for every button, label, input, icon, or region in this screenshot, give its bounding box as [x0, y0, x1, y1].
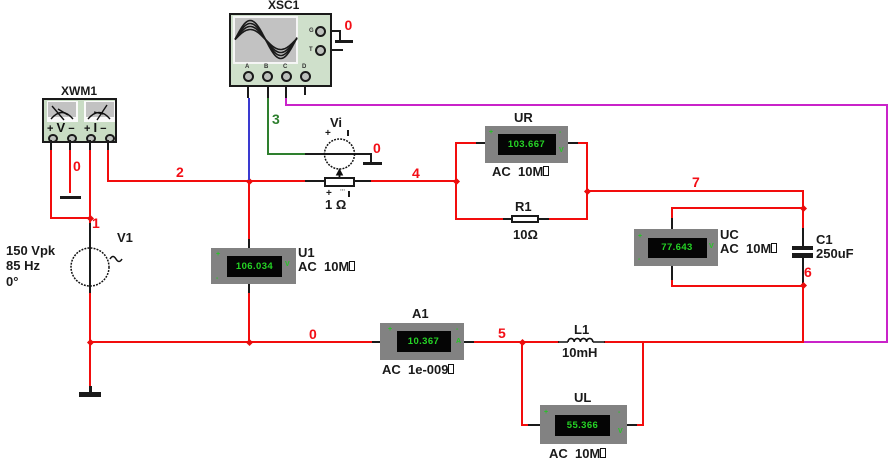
wire: bottom bus left segment — [89, 341, 373, 343]
wire: node 2 horizontal to junction — [107, 180, 250, 182]
wire: UL right horizontal red — [637, 424, 644, 426]
junction dot node 4 — [452, 177, 459, 184]
wire: UR loop left vertical — [455, 142, 457, 220]
wire: scope G pin to ground — [324, 30, 341, 32]
label XWM1 — [61, 85, 97, 97]
label L1 — [574, 323, 589, 336]
net label 0 at Vi — [373, 141, 381, 155]
label V1 — [117, 231, 133, 244]
junction dot node 1 — [87, 214, 94, 221]
label 1 ohm sense — [325, 198, 346, 211]
wire: node 7 run — [586, 190, 803, 192]
label C1 value — [816, 247, 854, 260]
voltmeter UL — [540, 405, 627, 444]
wire: node2 junction to 1ohm sense resistor — [249, 180, 306, 182]
C1 bottom lead black — [802, 258, 804, 285]
oscilloscope XSC1 screen — [233, 16, 298, 65]
oscilloscope pin B — [262, 71, 273, 82]
U1 top black stub — [248, 239, 250, 249]
oscilloscope pin D — [300, 71, 311, 82]
A1 left black stub — [372, 341, 380, 343]
oscilloscope pin G — [315, 26, 326, 37]
scope pin A black stub — [247, 81, 249, 98]
junction dot U1 bottom at bus — [246, 338, 253, 345]
wire: UL left horizontal red — [521, 424, 529, 426]
wire: red V1 top from node 1 — [89, 143, 91, 225]
junction dot V1/bus — [86, 338, 93, 345]
voltmeter UC — [634, 229, 718, 266]
junction dot node 7 at UR loop — [583, 187, 590, 194]
label UR — [514, 111, 533, 124]
wire: XWM1 pin V- down to ground — [69, 150, 71, 193]
net label 6 — [804, 265, 812, 279]
net label 1 — [92, 216, 100, 230]
UR left black stub — [476, 142, 485, 144]
wire: green scope channel B to Vi — [267, 153, 306, 155]
UL right black stub — [626, 424, 638, 426]
label V1 value — [6, 244, 55, 257]
voltmeter UR — [485, 126, 568, 163]
label C1 — [816, 233, 833, 246]
wire: UR loop right vertical — [586, 142, 588, 220]
label Vi — [330, 116, 342, 129]
label UC — [720, 228, 739, 241]
wire: UC loop top horizontal — [671, 207, 803, 209]
wire: node 1 horizontal jog — [50, 217, 91, 219]
source Vi arrow to 1 ohm — [336, 168, 344, 177]
resistor R1 body — [511, 215, 539, 224]
UC bottom black stub — [671, 265, 673, 281]
wire: UR left top red — [455, 142, 477, 144]
scope pin C black stub — [285, 81, 287, 98]
wattmeter XWM1 right window — [84, 101, 115, 122]
wire: U1 vertical bottom red — [248, 293, 250, 341]
wire: UL loop right vertical — [642, 341, 644, 426]
wire: UR right top red — [578, 142, 588, 144]
label A1 mode — [382, 363, 454, 376]
wire: scope T pin stub — [324, 49, 343, 51]
wattmeter pin 4 — [105, 134, 115, 144]
wire: UC loop bottom horizontal — [671, 285, 803, 287]
ground symbol at Vi — [370, 154, 372, 162]
oscilloscope pin C — [281, 71, 292, 82]
scope pin B black stub — [267, 81, 269, 98]
net label 0 at scope — [345, 18, 353, 32]
label UR mode — [492, 165, 549, 178]
source V1 tilde — [110, 257, 122, 262]
oscilloscope XSC1 body — [229, 13, 332, 87]
R1 right lead black — [538, 218, 550, 220]
wire: U1 vertical top red — [248, 180, 250, 240]
wire: magenta bottom run to node 6 — [803, 341, 888, 343]
R1 left lead black — [503, 218, 512, 220]
label U1 — [298, 246, 315, 259]
label UC mode — [720, 242, 777, 255]
oscilloscope pin letters — [245, 64, 249, 70]
net label 3 (green) — [272, 112, 280, 126]
ground symbol below XWM1 — [60, 196, 81, 199]
label U1 mode — [298, 260, 355, 273]
oscilloscope screen sine waves — [235, 21, 297, 59]
label A1 — [412, 307, 429, 320]
net label 2 — [176, 165, 184, 179]
wire: XWM1 pin I+ down to V1 top (node 1) — [89, 150, 91, 224]
capacitor C1 plates — [792, 246, 813, 250]
net label 0 at bus — [309, 327, 317, 341]
oscilloscope pin T — [315, 45, 326, 56]
wire: magenta horizontal top run — [285, 104, 888, 106]
net label 5 — [498, 326, 506, 340]
UL left black stub — [528, 424, 540, 426]
label UL mode — [549, 447, 606, 460]
wire: R1 row right red — [549, 218, 588, 220]
1ohm right lead black — [354, 180, 372, 182]
C1 top lead black — [802, 228, 804, 246]
wattmeter XWM1 body — [42, 98, 117, 143]
wire: XWM1 pin I- down to node 2 — [107, 150, 109, 181]
wire: V1 bottom to ground and bus — [89, 293, 91, 388]
wattmeter pin 3 — [86, 134, 96, 144]
wattmeter right gauge needle — [88, 105, 110, 120]
A1 right black stub — [464, 341, 475, 343]
wattmeter pin stubs — [50, 140, 52, 150]
wire: C1 top vertical red — [802, 190, 804, 229]
voltmeter U1 — [211, 248, 296, 284]
net label 7 — [692, 175, 700, 189]
wire: bus A1 to L1 — [474, 341, 559, 343]
wire: XWM1 pin V+ down to node 1 jog — [50, 150, 52, 218]
wattmeter left gauge needle — [51, 106, 73, 120]
label UL — [574, 391, 591, 404]
label R1 — [515, 200, 532, 213]
1ohm left lead black — [305, 180, 324, 182]
V1 lead black through circle — [89, 223, 91, 294]
1 ohm sense resistor body — [324, 177, 355, 187]
scope pin D black stub — [304, 81, 306, 95]
ground symbol at scope — [335, 40, 353, 43]
source V1 circle — [71, 248, 109, 286]
label XSC1 — [268, 0, 299, 11]
wattmeter XWM1 terminals text — [47, 121, 75, 135]
wire: magenta right vertical — [886, 104, 888, 342]
wattmeter pin 1 — [48, 134, 58, 144]
inductor L1 coil — [558, 338, 605, 342]
oscilloscope pin A — [243, 71, 254, 82]
source Vi circle — [325, 139, 355, 169]
UR right black stub — [567, 142, 578, 144]
wire: magenta scope channel C down stub — [285, 98, 287, 106]
wire: R1 row left red — [455, 218, 505, 220]
wire: bus L1 to C1 corner — [604, 341, 803, 343]
junction dot node 5 branch — [518, 338, 525, 345]
label Vi plus-minus — [325, 129, 331, 139]
wire: green scope channel B down — [267, 98, 269, 155]
wire: UC top stub red — [671, 207, 673, 219]
1 ohm plus and bar marks — [326, 189, 332, 199]
U1 bottom black stub — [248, 284, 250, 294]
wire: UL loop left vertical — [521, 341, 523, 426]
wire: node 4 run to UR loop — [371, 180, 456, 182]
wire: C1 bottom vertical red to bus — [802, 284, 804, 343]
wire: blue scope channel A down — [248, 98, 250, 181]
wire: UC bottom stub red — [671, 280, 673, 286]
label L1 value — [562, 346, 597, 359]
ground symbol below V1 — [89, 386, 92, 392]
label R1 value — [513, 228, 538, 241]
net label 0 at XWM1 — [73, 159, 81, 173]
junction dot UC top — [799, 204, 806, 211]
wattmeter XWM1 left window — [47, 101, 78, 122]
Vi symbol horizontal black lead — [305, 153, 372, 155]
wattmeter pin 2 — [67, 134, 77, 144]
junction dot UC bottom — [799, 282, 806, 289]
UC top black stub — [671, 218, 673, 230]
ammeter A1 — [380, 323, 464, 360]
junction dot node2/scope A — [246, 177, 253, 184]
net label 4 — [412, 166, 420, 180]
